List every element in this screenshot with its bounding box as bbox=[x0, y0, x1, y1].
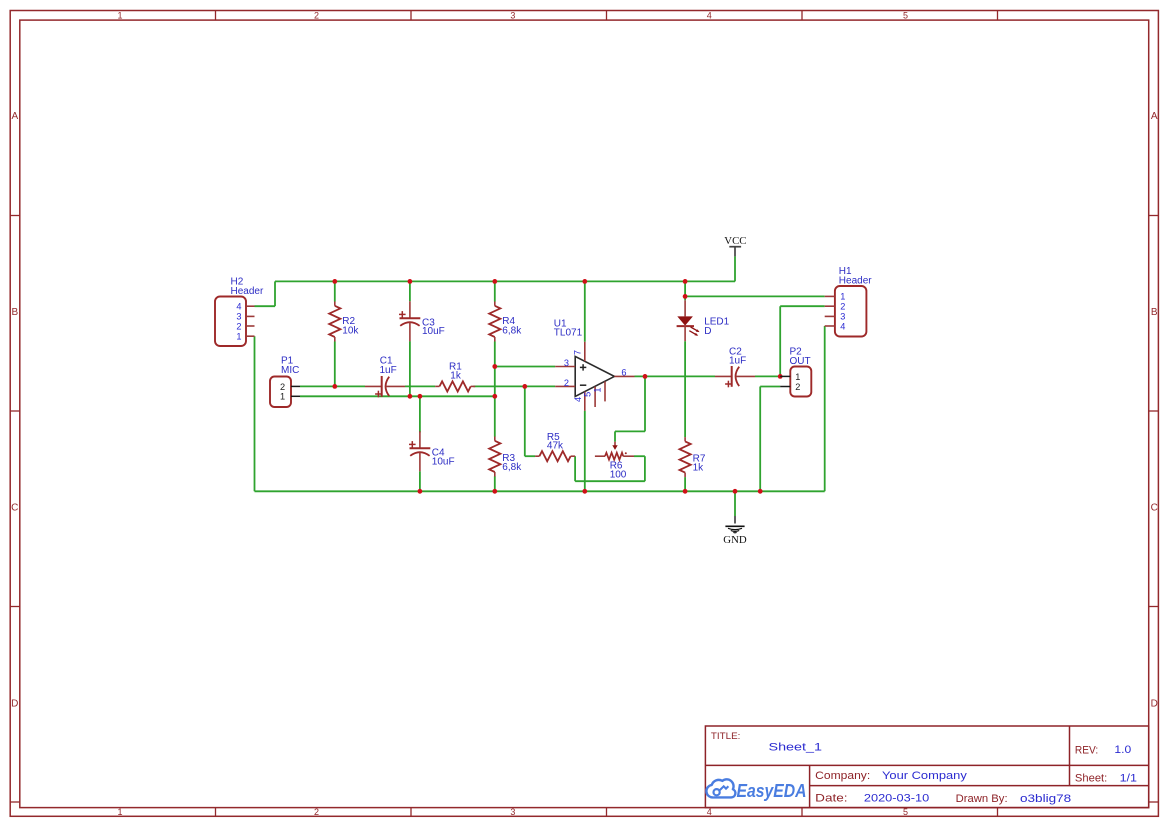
svg-text:2: 2 bbox=[314, 807, 319, 817]
svg-text:Sheet:: Sheet: bbox=[1075, 773, 1107, 785]
svg-text:100: 100 bbox=[610, 470, 627, 481]
svg-text:1: 1 bbox=[593, 388, 603, 393]
svg-text:2: 2 bbox=[314, 10, 319, 20]
svg-text:OUT: OUT bbox=[790, 356, 811, 367]
svg-text:Drawn By:: Drawn By: bbox=[956, 793, 1008, 805]
svg-text:7: 7 bbox=[573, 350, 583, 355]
svg-text:1uF: 1uF bbox=[380, 365, 397, 376]
svg-text:Date:: Date: bbox=[815, 792, 847, 804]
svg-text:D: D bbox=[704, 326, 711, 337]
svg-text:Header: Header bbox=[839, 276, 872, 287]
svg-text:2: 2 bbox=[280, 382, 285, 392]
svg-text:D: D bbox=[1151, 698, 1158, 709]
svg-text:2: 2 bbox=[840, 302, 845, 312]
svg-text:GND: GND bbox=[723, 534, 747, 546]
svg-text:TL071: TL071 bbox=[554, 328, 583, 339]
svg-text:3: 3 bbox=[510, 807, 515, 817]
svg-text:1: 1 bbox=[236, 332, 241, 342]
svg-text:VCC: VCC bbox=[724, 235, 746, 247]
svg-text:2: 2 bbox=[564, 378, 569, 388]
svg-text:EasyEDA: EasyEDA bbox=[737, 781, 807, 801]
svg-text:1: 1 bbox=[117, 10, 122, 20]
svg-text:6,8k: 6,8k bbox=[502, 325, 522, 336]
svg-text:1: 1 bbox=[280, 392, 285, 402]
svg-text:6,8k: 6,8k bbox=[502, 462, 522, 473]
svg-text:D: D bbox=[11, 698, 18, 709]
svg-text:4: 4 bbox=[236, 302, 241, 312]
svg-text:3: 3 bbox=[564, 358, 569, 368]
svg-text:2020-03-10: 2020-03-10 bbox=[864, 792, 929, 804]
svg-text:B: B bbox=[11, 307, 18, 318]
svg-text:1: 1 bbox=[795, 372, 800, 382]
svg-text:1k: 1k bbox=[450, 371, 462, 382]
svg-text:A: A bbox=[11, 111, 18, 122]
svg-text:Header: Header bbox=[231, 286, 264, 297]
svg-text:3: 3 bbox=[840, 312, 845, 322]
svg-text:1uF: 1uF bbox=[729, 356, 746, 367]
svg-text:6: 6 bbox=[621, 367, 626, 377]
svg-text:4: 4 bbox=[840, 321, 845, 331]
svg-text:5: 5 bbox=[582, 392, 592, 397]
svg-text:1.0: 1.0 bbox=[1114, 744, 1131, 756]
svg-text:TITLE:: TITLE: bbox=[711, 731, 741, 741]
svg-text:5: 5 bbox=[903, 10, 908, 20]
svg-text:1/1: 1/1 bbox=[1120, 772, 1137, 784]
svg-text:2: 2 bbox=[795, 382, 800, 392]
svg-text:1: 1 bbox=[840, 292, 845, 302]
svg-text:3: 3 bbox=[236, 312, 241, 322]
svg-text:2: 2 bbox=[236, 321, 241, 331]
svg-text:REV:: REV: bbox=[1075, 744, 1098, 756]
svg-text:10uF: 10uF bbox=[422, 326, 445, 337]
svg-text:3: 3 bbox=[510, 10, 515, 20]
svg-text:1: 1 bbox=[117, 807, 122, 817]
svg-text:C: C bbox=[11, 503, 18, 514]
svg-text:10uF: 10uF bbox=[432, 456, 455, 467]
svg-text:4: 4 bbox=[707, 10, 712, 20]
svg-text:10k: 10k bbox=[342, 325, 359, 336]
svg-text:C: C bbox=[1151, 503, 1158, 514]
svg-text:5: 5 bbox=[903, 807, 908, 817]
svg-text:1k: 1k bbox=[693, 463, 705, 474]
svg-text:MIC: MIC bbox=[281, 365, 299, 376]
svg-text:B: B bbox=[1151, 307, 1158, 318]
svg-text:Company:: Company: bbox=[815, 770, 870, 782]
svg-text:o3blig78: o3blig78 bbox=[1020, 793, 1071, 805]
svg-text:4: 4 bbox=[573, 397, 583, 402]
svg-text:A: A bbox=[1151, 111, 1158, 122]
svg-text:Sheet_1: Sheet_1 bbox=[769, 742, 823, 754]
svg-text:4: 4 bbox=[707, 807, 712, 817]
svg-text:Your Company: Your Company bbox=[882, 770, 968, 782]
svg-text:47k: 47k bbox=[547, 441, 564, 452]
